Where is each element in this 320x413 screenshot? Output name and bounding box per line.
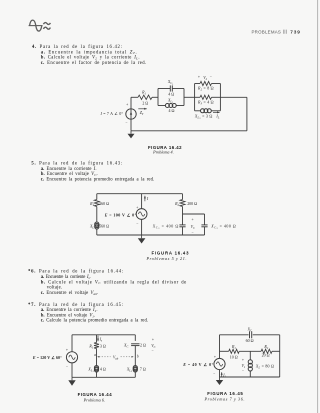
- caption FIGURA 16.44: [78, 392, 113, 402]
- right rail to junction: [182, 207, 184, 215]
- chapter sine-wave logo: [29, 20, 51, 31]
- top wire with capacitor XC: [220, 334, 249, 336]
- svg-text:560 Ω: 560 Ω: [99, 201, 109, 206]
- svg-text:PROBLEMAS: PROBLEMAS: [252, 30, 282, 35]
- svg-text:−: −: [242, 369, 244, 373]
- svg-text:60 Ω: 60 Ω: [246, 338, 254, 343]
- svg-text:a. Encuentre la impedancia tot: a. Encuentre la impedancia total ZT.: [41, 50, 137, 55]
- svg-text:+: +: [192, 218, 194, 222]
- resistor R2 (20 ohm): [261, 349, 272, 353]
- VC polarity labels: [191, 218, 195, 235]
- svg-text:c. Encuentre la potencia prome: c. Encuentre la potencia promedio entreg…: [41, 178, 155, 183]
- svg-text:−: −: [192, 231, 194, 235]
- caption FIGURA 16.43: [146, 251, 190, 262]
- svg-text:4 Ω: 4 Ω: [100, 366, 106, 371]
- svg-text:+: +: [214, 355, 216, 359]
- svg-text:4 Ω: 4 Ω: [168, 91, 174, 96]
- top wire: [97, 193, 183, 195]
- svg-text:FIGURA 16.43: FIGURA 16.43: [152, 251, 190, 256]
- current IL arrow: [213, 111, 220, 119]
- resistor R2 (200 ohm): [180, 200, 185, 207]
- svg-text:+: +: [242, 358, 244, 362]
- branch R2 wires: [195, 83, 200, 85]
- junction connector wire: [183, 213, 205, 215]
- middle branch bottom segment: [96, 372, 98, 377]
- right branch middle segment: [134, 346, 136, 366]
- problem 6 text: [28, 270, 186, 296]
- right branch top segment: [134, 335, 136, 341]
- svg-text:739: 739: [290, 30, 300, 35]
- svg-text:Problema 4.: Problema 4.: [152, 150, 174, 155]
- problem 4 text: [32, 45, 146, 66]
- svg-text:−: −: [125, 121, 127, 125]
- inductor XL (560 ohm): [95, 222, 99, 226]
- svg-text:10 Ω: 10 Ω: [230, 354, 238, 359]
- page edge line: [317, 0, 319, 413]
- voltage source E = 100 V angle 0: [136, 209, 147, 220]
- top wire: [72, 334, 135, 336]
- bottom wire: [220, 376, 280, 378]
- svg-text:+: +: [198, 75, 200, 79]
- svg-text:−: −: [210, 75, 212, 79]
- svg-text:Problemas 5 y 21.: Problemas 5 y 21.: [146, 256, 187, 261]
- svg-text:b: b: [137, 354, 139, 358]
- Vab dashed arrow: [97, 355, 133, 360]
- svg-text:a: a: [94, 353, 96, 357]
- wire R2 to right rail: [272, 350, 280, 352]
- inductor XL1 (4 ohm): [94, 366, 98, 370]
- wire right rail to corner: [220, 96, 247, 98]
- current I1 arrow: [221, 372, 227, 378]
- right branch bottom segment: [134, 372, 136, 377]
- svg-text:2 Ω: 2 Ω: [140, 342, 146, 347]
- voltage source E = 40 V angle 0: [214, 358, 225, 369]
- svg-text:−: −: [66, 365, 68, 369]
- svg-text:c. Calcule la potencia promedi: c. Calcule la potencia promedio entregad…: [41, 319, 148, 324]
- svg-text:I = 7 A ∠ 0°: I = 7 A ∠ 0°: [100, 111, 124, 116]
- svg-text:E = 100 V ∠ 0°: E = 100 V ∠ 0°: [104, 212, 137, 217]
- right rail top segment: [182, 194, 184, 200]
- svg-text:a. Encuentre la corriente I.: a. Encuentre la corriente I.: [41, 167, 97, 172]
- svg-text:a. Encuentre la corriente Is.: a. Encuentre la corriente Is.: [41, 275, 91, 280]
- svg-text:*7. Para la red de la figura 1: *7. Para la red de la figura 16.45:: [28, 303, 123, 308]
- svg-text:E = 40 V ∠ 0°: E = 40 V ∠ 0°: [182, 362, 213, 367]
- source polarity: [136, 206, 138, 226]
- right rail: [279, 335, 281, 377]
- svg-text:b. Encuentre el voltaje VC.: b. Encuentre el voltaje VC.: [41, 172, 98, 177]
- svg-text:560 Ω: 560 Ω: [99, 224, 109, 229]
- inductor XL2 (7 ohm): [133, 366, 137, 370]
- bottom wire: [97, 234, 205, 236]
- parallel box bottom edge with inductor XL1: [158, 105, 165, 107]
- svg-text:−: −: [136, 222, 138, 226]
- current I arrow: [144, 196, 149, 201]
- svg-text:b. Encuentre el voltaje V1.: b. Encuentre el voltaje V1.: [41, 313, 95, 318]
- svg-text:−: −: [152, 349, 154, 353]
- inductor XL branch: [249, 351, 251, 360]
- ground arrow fig 16.45: [219, 377, 221, 380]
- source branch bottom wire: [141, 219, 143, 235]
- svg-text:c. Encuentre el factor de pote: c. Encuentre el factor de potencia de la…: [41, 61, 147, 66]
- caption FIGURA 16.42: [148, 145, 182, 155]
- left rail top: [71, 335, 73, 352]
- svg-text:b. Calcule el voltaje VC utili: b. Calcule el voltaje VC utilizando la r…: [41, 280, 187, 285]
- svg-text:4. Para la red de la figura 16: 4. Para la red de la figura 16.42:: [32, 45, 122, 50]
- wire R1 to node: [239, 350, 261, 352]
- source bottom wire: [219, 370, 221, 377]
- right block right rail: [219, 84, 221, 111]
- wire source top: [130, 97, 132, 109]
- bottom wire: [72, 376, 135, 378]
- source current Is arrow: [97, 336, 103, 343]
- right down wire: [246, 97, 248, 131]
- V1 polarity labels: [241, 358, 245, 372]
- svg-text:2 Ω: 2 Ω: [142, 102, 148, 106]
- middle wire left segment: [220, 350, 229, 352]
- problem 5 text: [31, 162, 154, 183]
- source polarity: [66, 348, 68, 369]
- resistor R2: [200, 81, 212, 85]
- svg-text:a. Encuentre la corriente I1.: a. Encuentre la corriente I1.: [41, 308, 98, 313]
- svg-text:3 Ω: 3 Ω: [100, 343, 106, 348]
- wire box to right block: [184, 96, 195, 98]
- parallel box right edge: [183, 89, 185, 106]
- svg-text:FIGURA 16.45: FIGURA 16.45: [207, 391, 243, 396]
- current source I = 7 A angle 0: [126, 109, 136, 119]
- wire top to R1: [131, 96, 138, 98]
- svg-text:voltaje.: voltaje.: [47, 286, 62, 291]
- parallel box left edge: [157, 89, 159, 106]
- svg-text:c. Encuentre el voltaje Vab.: c. Encuentre el voltaje Vab.: [41, 291, 99, 296]
- VC polarity labels: [151, 337, 155, 353]
- svg-text:*6. Para la red de la figura 1: *6. Para la red de la figura 16.44:: [28, 270, 123, 275]
- svg-text:7 Ω: 7 Ω: [140, 366, 146, 371]
- ground arrow fig 16.42: [130, 131, 132, 134]
- left rail middle segment: [96, 207, 98, 223]
- right block left rail: [194, 84, 196, 111]
- branch R3 wires: [195, 96, 200, 98]
- svg-text:200 Ω: 200 Ω: [187, 201, 197, 206]
- caption FIGURA 16.45: [204, 391, 245, 402]
- svg-text:b. Calcule el voltaje V2 y la: b. Calcule el voltaje V2 y la corriente …: [41, 56, 140, 61]
- resistor R1 (10 ohm): [229, 349, 240, 353]
- resistor R3: [200, 95, 212, 99]
- middle branch top segment: [96, 335, 98, 343]
- problem 7 text: [28, 303, 148, 324]
- running head: PROBLEMAS ||| 739: [252, 30, 301, 35]
- left rail upper segment: [96, 194, 98, 200]
- source polarity: [213, 355, 216, 375]
- svg-text:E = 120 V ∠ 60°: E = 120 V ∠ 60°: [32, 355, 62, 360]
- bottom wire: [131, 130, 247, 132]
- svg-text:+: +: [66, 348, 68, 352]
- svg-text:+: +: [152, 337, 154, 341]
- svg-text:Problemas 7 y 36.: Problemas 7 y 36.: [204, 396, 245, 401]
- ground arrow fig 16.44: [71, 377, 73, 380]
- V2 polarity label: [198, 75, 212, 81]
- left rail bottom: [71, 363, 73, 377]
- resistor R1: [138, 95, 152, 99]
- branch XL2 wires: [195, 110, 201, 112]
- wire source bottom: [130, 119, 132, 131]
- capacitor XC1: [182, 214, 184, 225]
- left rail: [219, 335, 221, 359]
- resistor R1 (560 ohm): [94, 200, 99, 207]
- resistor R1 (3 ohm): [94, 343, 99, 349]
- middle branch node a segment: [96, 349, 98, 366]
- parallel box top edge with capacitor XC1: [158, 88, 170, 90]
- svg-text:Problema 6.: Problema 6.: [83, 397, 106, 402]
- current source polarity labels: [125, 102, 128, 124]
- svg-text:−: −: [213, 371, 215, 375]
- svg-text:+: +: [126, 102, 128, 106]
- ground arrow fig 16.43: [141, 235, 143, 238]
- svg-text:+: +: [136, 206, 138, 210]
- voltage source E = 120 V angle 60: [66, 352, 77, 363]
- capacitor XC (2 ohm): [131, 343, 139, 345]
- left rail lower segment: [96, 229, 98, 235]
- impedance ZT arrow: [138, 108, 147, 116]
- svg-text:20 Ω: 20 Ω: [262, 353, 270, 358]
- svg-text:4 Ω: 4 Ω: [169, 108, 175, 113]
- source branch top wire: [141, 194, 143, 209]
- svg-text:5. Para la red de la figura 16: 5. Para la red de la figura 16.43:: [31, 162, 122, 167]
- capacitor XC2 branch: [204, 214, 206, 225]
- wire R1 to parallel box: [152, 96, 158, 98]
- inductor XL2: [201, 109, 205, 113]
